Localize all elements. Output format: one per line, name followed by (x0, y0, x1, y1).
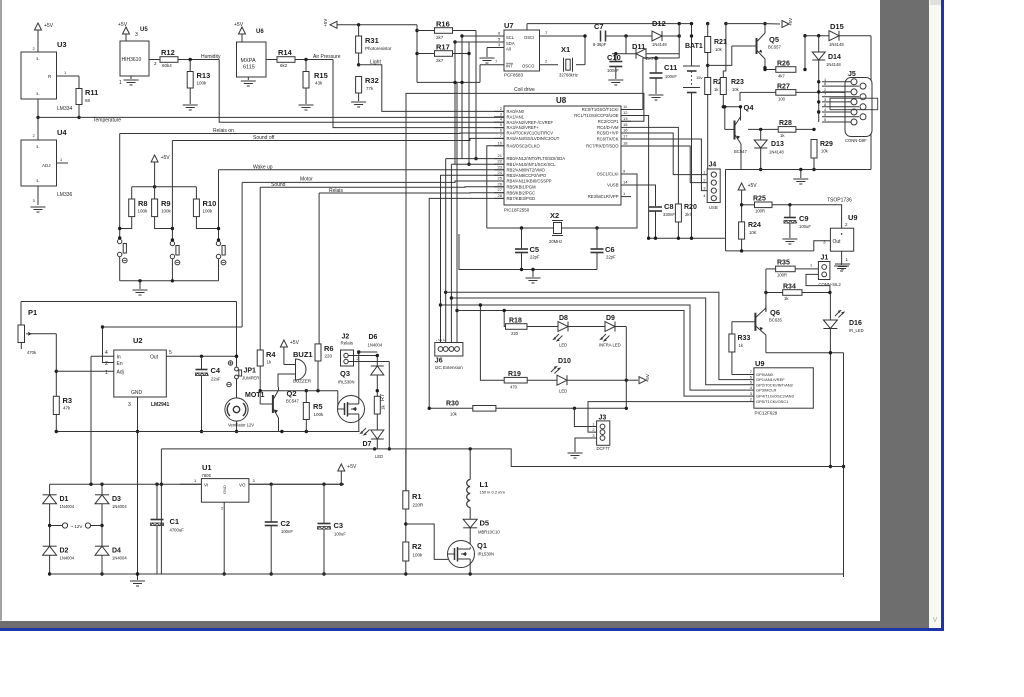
svg-text:D11: D11 (632, 42, 645, 51)
svg-text:5: 5 (169, 350, 172, 356)
svg-text:25: 25 (498, 176, 503, 181)
svg-text:GP5/T1CKI/OSC1: GP5/T1CKI/OSC1 (756, 399, 789, 404)
svg-text:10k: 10k (715, 47, 723, 52)
svg-text:2k7: 2k7 (436, 35, 444, 40)
svg-text:R34: R34 (783, 284, 796, 291)
svg-text:X2: X2 (550, 211, 559, 220)
svg-text:J1: J1 (821, 255, 829, 262)
svg-text:D15: D15 (830, 22, 844, 31)
svg-text:+5V: +5V (645, 374, 650, 382)
svg-text:R15: R15 (314, 71, 328, 80)
svg-text:BUZZER: BUZZER (293, 379, 312, 384)
svg-text:220R: 220R (413, 503, 425, 508)
svg-text:P1: P1 (28, 308, 37, 317)
svg-text:28: 28 (498, 193, 503, 198)
svg-text:2: 2 (824, 88, 826, 92)
svg-text:X1: X1 (561, 45, 570, 54)
svg-text:100k: 100k (138, 209, 149, 214)
svg-text:3: 3 (824, 98, 826, 102)
svg-text:Relais on: Relais on (213, 128, 234, 134)
svg-text:D9: D9 (606, 315, 615, 322)
svg-text:1: 1 (846, 257, 849, 262)
svg-text:D6: D6 (369, 334, 378, 341)
svg-text:I2C Extension: I2C Extension (435, 365, 464, 370)
svg-text:R9: R9 (161, 199, 171, 208)
svg-text:24: 24 (498, 170, 503, 175)
svg-text:32768kHz: 32768kHz (559, 73, 578, 78)
svg-text:RA2/AN2/VREF-/CVREF: RA2/AN2/VREF-/CVREF (507, 120, 554, 125)
svg-text:R33: R33 (738, 335, 751, 342)
svg-text:D4: D4 (112, 548, 121, 555)
svg-text:2: 2 (221, 506, 224, 511)
svg-text:U2: U2 (133, 336, 143, 345)
svg-text:RC2/CCP1: RC2/CCP1 (598, 119, 619, 124)
svg-text:4: 4 (824, 108, 826, 112)
svg-text:15v: 15v (696, 75, 702, 80)
svg-text:1: 1 (357, 351, 359, 355)
svg-text:D14: D14 (828, 54, 841, 61)
svg-text:2: 2 (33, 46, 36, 51)
svg-text:3: 3 (253, 478, 256, 483)
svg-text:27: 27 (498, 187, 503, 192)
svg-text:U5: U5 (140, 27, 148, 33)
svg-text:J6: J6 (435, 358, 443, 365)
svg-text:100R: 100R (777, 273, 787, 278)
svg-text:Temperature: Temperature (93, 118, 121, 124)
svg-text:R20: R20 (684, 204, 697, 211)
svg-text:RA6/OSC2/CLKO: RA6/OSC2/CLKO (507, 143, 541, 148)
svg-text:14: 14 (623, 180, 628, 185)
svg-text:C9: C9 (799, 214, 809, 223)
svg-text:R16: R16 (436, 20, 450, 29)
svg-text:6: 6 (824, 82, 826, 86)
svg-text:Adj: Adj (117, 370, 124, 376)
svg-text:Out: Out (833, 239, 842, 245)
svg-text:3: 3 (750, 391, 753, 396)
svg-text:1: 1 (105, 370, 108, 376)
svg-text:1k: 1k (267, 360, 273, 365)
svg-text:60k4: 60k4 (162, 63, 172, 68)
svg-text:R11: R11 (85, 88, 98, 97)
svg-text:BC635: BC635 (769, 318, 782, 323)
svg-text:BC557: BC557 (768, 45, 781, 50)
svg-text:+5V: +5V (748, 183, 758, 189)
svg-text:2: 2 (845, 222, 848, 227)
svg-text:R3: R3 (63, 396, 73, 405)
svg-text:+5V: +5V (290, 340, 300, 346)
svg-text:MBR10C10: MBR10C10 (478, 530, 500, 535)
svg-text:D5: D5 (480, 519, 490, 528)
svg-text:A0: A0 (506, 47, 512, 52)
svg-text:MXPA: MXPA (241, 58, 257, 64)
svg-text:R27: R27 (777, 84, 790, 91)
svg-text:Coil drive: Coil drive (514, 87, 535, 93)
svg-text:D3: D3 (112, 496, 121, 503)
svg-text:RB5/KBI1/PGM: RB5/KBI1/PGM (507, 184, 537, 189)
svg-text:VO: VO (239, 483, 246, 488)
svg-text:LM2941: LM2941 (151, 402, 170, 408)
svg-text:RB2/AN8/INT2/VMO: RB2/AN8/INT2/VMO (507, 167, 546, 172)
svg-text:Q5: Q5 (769, 35, 779, 44)
svg-text:220: 220 (511, 331, 519, 336)
svg-text:6: 6 (500, 128, 503, 133)
svg-text:C6: C6 (605, 245, 615, 254)
svg-text:RB3/AN9/CCP2/VPO: RB3/AN9/CCP2/VPO (507, 173, 548, 178)
svg-text:1: 1 (60, 157, 63, 162)
svg-text:11: 11 (623, 104, 628, 109)
svg-text:BUZ1: BUZ1 (293, 350, 313, 359)
svg-text:2: 2 (500, 106, 503, 111)
svg-text:26: 26 (498, 181, 503, 186)
svg-text:1: 1 (545, 30, 548, 35)
svg-text:~ 12V: ~ 12V (71, 524, 83, 529)
svg-text:U9: U9 (755, 359, 765, 368)
svg-text:OSCO: OSCO (522, 64, 535, 69)
svg-text:68: 68 (85, 98, 91, 103)
svg-text:1k: 1k (739, 343, 744, 348)
svg-text:77k: 77k (366, 86, 374, 91)
svg-text:TSOP1736: TSOP1736 (827, 198, 852, 204)
svg-text:R18: R18 (509, 318, 522, 325)
svg-text:1N4004: 1N4004 (368, 343, 383, 348)
svg-text:RE3/MCLR/VPP: RE3/MCLR/VPP (588, 194, 619, 199)
svg-text:IR_LED: IR_LED (849, 328, 864, 333)
svg-text:RB4/AN11/KBI0/CSSPP: RB4/AN11/KBI0/CSSPP (507, 179, 552, 184)
svg-text:In: In (117, 355, 121, 361)
svg-text:L1: L1 (480, 480, 489, 489)
svg-text:R8: R8 (138, 199, 148, 208)
svg-text:16: 16 (623, 128, 628, 133)
svg-text:3: 3 (33, 198, 36, 203)
svg-text:100R: 100R (755, 209, 765, 214)
svg-text:U3: U3 (57, 40, 67, 49)
svg-text:R1: R1 (412, 492, 422, 501)
svg-text:2: 2 (33, 133, 36, 138)
svg-text:1: 1 (119, 80, 122, 86)
svg-text:+5V: +5V (788, 18, 793, 26)
svg-text:10K: 10K (749, 230, 757, 235)
svg-text:GP3/MCLR: GP3/MCLR (756, 388, 777, 393)
svg-text:RC4/D-/VM: RC4/D-/VM (597, 125, 619, 130)
svg-text:12: 12 (623, 110, 628, 115)
svg-text:10k: 10k (732, 87, 740, 92)
svg-text:HIH3610: HIH3610 (122, 57, 142, 63)
svg-text:2: 2 (750, 396, 753, 401)
svg-text:RC6/TX/CK: RC6/TX/CK (597, 137, 619, 142)
svg-text:R5: R5 (313, 402, 323, 411)
svg-text:D8: D8 (559, 315, 568, 322)
svg-text:22pF: 22pF (530, 255, 540, 260)
svg-text:4k7: 4k7 (778, 74, 785, 79)
svg-text:Relais: Relais (341, 341, 354, 346)
svg-text:D1: D1 (60, 496, 69, 503)
svg-text:7: 7 (495, 59, 498, 64)
svg-text:C10: C10 (607, 53, 621, 62)
svg-text:J4: J4 (709, 162, 717, 169)
svg-text:R13: R13 (197, 71, 211, 80)
svg-text:150 in 0.2 mm: 150 in 0.2 mm (480, 490, 506, 495)
svg-text:3: 3 (592, 434, 594, 438)
svg-text:D7: D7 (363, 441, 372, 448)
svg-text:1k: 1k (780, 133, 785, 138)
svg-text:RA5/AN4/SS/LVDIN/C2OUT: RA5/AN4/SS/LVDIN/C2OUT (507, 136, 560, 141)
svg-text:3: 3 (135, 32, 138, 38)
svg-text:7: 7 (824, 93, 826, 97)
svg-text:C3: C3 (334, 521, 344, 530)
svg-text:Photoresistor: Photoresistor (365, 46, 392, 51)
svg-text:10: 10 (498, 140, 503, 145)
svg-text:20MHz: 20MHz (549, 239, 562, 244)
svg-text:R30: R30 (446, 401, 459, 408)
svg-text:RA1/AN1: RA1/AN1 (507, 114, 525, 119)
svg-text:Q3: Q3 (340, 369, 350, 378)
svg-text:R21: R21 (714, 39, 727, 46)
svg-text:22: 22 (498, 159, 503, 164)
svg-text:RC5/D+/VP: RC5/D+/VP (597, 131, 619, 136)
svg-text:4: 4 (750, 385, 753, 390)
svg-text:JP1: JP1 (244, 368, 257, 375)
svg-text:1N4004: 1N4004 (60, 556, 75, 561)
svg-text:C4: C4 (211, 366, 221, 375)
svg-text:OSC1/CLKI: OSC1/CLKI (597, 172, 619, 177)
svg-text:Ventilator 12V: Ventilator 12V (228, 423, 254, 428)
svg-text:Humidity: Humidity (201, 54, 221, 60)
svg-text:R28: R28 (779, 120, 792, 127)
svg-text:C2: C2 (281, 519, 291, 528)
svg-text:5: 5 (824, 118, 826, 122)
svg-text:IRL530N: IRL530N (478, 552, 495, 557)
svg-text:GND: GND (222, 485, 227, 494)
svg-text:+ 5 V G: + 5 V G (436, 338, 445, 342)
svg-text:100uF: 100uF (799, 224, 811, 229)
svg-text:470k: 470k (27, 350, 37, 355)
svg-text:1: 1 (592, 423, 594, 427)
svg-text:1: 1 (703, 171, 705, 175)
svg-text:GP2/T0CKI/INT/AN2: GP2/T0CKI/INT/AN2 (756, 382, 794, 387)
svg-text:PCF8583: PCF8583 (504, 73, 524, 78)
svg-text:+5V: +5V (323, 19, 328, 27)
svg-text:2: 2 (592, 428, 594, 432)
svg-text:D16: D16 (849, 320, 862, 327)
svg-text:DCF77: DCF77 (597, 446, 611, 451)
svg-text:1N4004: 1N4004 (112, 504, 127, 509)
svg-text:LED: LED (559, 343, 567, 348)
svg-text:1N4148: 1N4148 (826, 62, 841, 67)
svg-text:220: 220 (325, 354, 333, 359)
svg-text:SDA: SDA (506, 41, 515, 46)
svg-text:Motor: Motor (300, 177, 313, 183)
svg-text:5: 5 (498, 37, 501, 42)
svg-text:Sound: Sound (271, 182, 286, 188)
svg-text:15: 15 (623, 122, 628, 127)
svg-text:J2: J2 (342, 334, 350, 341)
svg-text:8-36pF: 8-36pF (593, 42, 607, 47)
svg-text:21: 21 (498, 153, 503, 158)
svg-text:3: 3 (703, 187, 705, 191)
svg-text:3: 3 (498, 42, 501, 47)
svg-text:R31: R31 (365, 36, 379, 45)
svg-text:18: 18 (623, 141, 628, 146)
svg-text:R4: R4 (266, 350, 276, 359)
svg-text:100k: 100k (161, 209, 172, 214)
svg-text:PIC12F629: PIC12F629 (755, 411, 778, 416)
svg-text:1N4004: 1N4004 (112, 556, 127, 561)
svg-text:R2: R2 (412, 542, 422, 551)
svg-text:U6: U6 (256, 29, 264, 35)
svg-text:100nF: 100nF (607, 68, 619, 73)
svg-text:En: En (117, 361, 123, 367)
svg-text:U1: U1 (202, 463, 212, 472)
svg-text:SCL: SCL (506, 35, 515, 40)
svg-text:BAT1: BAT1 (685, 43, 703, 50)
svg-text:LM334: LM334 (57, 106, 73, 112)
svg-text:INFRA LED: INFRA LED (599, 343, 621, 348)
svg-text:100k: 100k (413, 553, 424, 558)
svg-text:2: 2 (545, 59, 548, 64)
svg-text:4: 4 (105, 350, 108, 356)
svg-text:+5V: +5V (118, 22, 128, 28)
svg-text:USB: USB (709, 205, 718, 210)
svg-text:VI: VI (204, 483, 208, 488)
svg-text:22uF: 22uF (211, 377, 221, 382)
svg-text:Q4: Q4 (744, 103, 755, 112)
svg-text:IRL530N: IRL530N (338, 380, 355, 385)
svg-text:1N4148: 1N4148 (652, 42, 667, 47)
svg-text:R17: R17 (436, 43, 450, 52)
svg-text:C11: C11 (664, 63, 677, 72)
svg-text:OSCI: OSCI (524, 35, 534, 40)
svg-text:Relais: Relais (329, 188, 343, 194)
svg-text:R24: R24 (748, 222, 761, 229)
svg-text:2k7: 2k7 (685, 212, 692, 217)
svg-text:C1: C1 (170, 517, 180, 526)
svg-text:5: 5 (750, 379, 753, 384)
svg-text:LM336: LM336 (57, 192, 73, 198)
svg-text:47k: 47k (63, 406, 71, 411)
svg-text:RC1/T1OSI/CCP2/UOE: RC1/T1OSI/CCP2/UOE (574, 113, 618, 118)
svg-text:1: 1 (810, 264, 812, 268)
svg-text:RB7/KBI3/PGD: RB7/KBI3/PGD (507, 196, 536, 201)
svg-text:RA4/T0CKI/C1OUT/RCV: RA4/T0CKI/C1OUT/RCV (507, 131, 554, 136)
svg-text:R10: R10 (203, 199, 217, 208)
svg-text:GND: GND (131, 390, 143, 396)
svg-text:1k: 1k (714, 87, 719, 92)
svg-text:Air Pressure: Air Pressure (313, 54, 341, 60)
svg-text:3: 3 (500, 111, 503, 116)
svg-text:100k: 100k (314, 412, 325, 417)
svg-text:RA3/AN3/VREF+: RA3/AN3/VREF+ (507, 125, 540, 130)
svg-text:R19: R19 (508, 371, 521, 378)
svg-text:100uF: 100uF (334, 532, 346, 537)
svg-text:+5V: +5V (161, 155, 171, 161)
svg-text:2: 2 (154, 61, 157, 66)
svg-text:2: 2 (357, 357, 359, 361)
svg-text:2: 2 (703, 179, 705, 183)
svg-text:9: 9 (824, 113, 826, 117)
svg-text:J3: J3 (599, 415, 607, 422)
svg-text:D12: D12 (652, 19, 666, 28)
svg-text:R29: R29 (820, 141, 833, 148)
svg-text:7: 7 (500, 133, 503, 138)
svg-text:1: 1 (194, 478, 197, 483)
svg-text:R23: R23 (731, 79, 744, 86)
svg-text:Q1: Q1 (477, 541, 487, 550)
svg-text:RA0/AN0: RA0/AN0 (507, 109, 525, 114)
svg-text:470: 470 (510, 385, 518, 390)
svg-text:1N4148: 1N4148 (769, 150, 784, 155)
svg-text:LED: LED (559, 389, 567, 394)
svg-text:22pF: 22pF (606, 255, 616, 260)
svg-text:Sound off: Sound off (253, 135, 275, 141)
svg-text:Out: Out (150, 355, 159, 361)
svg-text:RC7/RX/DT/SDO: RC7/RX/DT/SDO (586, 144, 619, 149)
svg-text:13: 13 (623, 116, 628, 121)
svg-text:1: 1 (623, 191, 626, 196)
svg-text:R12: R12 (161, 48, 175, 57)
svg-text:+5V: +5V (44, 23, 54, 29)
svg-text:GP4/T1G/OSC2/AN3: GP4/T1G/OSC2/AN3 (756, 394, 795, 399)
svg-text:RB0/AN12/INT0/FLT0/SDI/SDA: RB0/AN12/INT0/FLT0/SDI/SDA (507, 156, 566, 161)
svg-text:U7: U7 (504, 21, 514, 30)
svg-text:1k: 1k (381, 404, 386, 410)
svg-text:R14: R14 (278, 48, 293, 57)
svg-text:D10: D10 (558, 358, 571, 365)
svg-text:R7: R7 (380, 394, 386, 401)
svg-text:C5: C5 (530, 245, 540, 254)
svg-text:330nF: 330nF (663, 212, 675, 217)
svg-text:43k: 43k (315, 81, 323, 86)
svg-text:1N4004: 1N4004 (60, 504, 75, 509)
svg-text:10k: 10k (450, 412, 458, 417)
svg-text:10k: 10k (821, 149, 829, 154)
svg-text:5: 5 (500, 122, 503, 127)
svg-text:RC0/T1OSO/T1CKI: RC0/T1OSO/T1CKI (582, 107, 619, 112)
svg-text:R35: R35 (777, 260, 790, 267)
svg-text:U9: U9 (848, 213, 858, 222)
svg-text:MOT1: MOT1 (245, 392, 265, 399)
svg-text:Wake up: Wake up (253, 164, 273, 170)
svg-text:R32: R32 (365, 76, 379, 85)
svg-text:ADJ: ADJ (42, 163, 51, 168)
svg-text:JUMPER: JUMPER (242, 376, 259, 381)
svg-text:CONN-D9F: CONN-D9F (845, 138, 867, 143)
svg-text:6k2: 6k2 (280, 63, 288, 68)
svg-text:4700uF: 4700uF (170, 528, 185, 533)
svg-text:6: 6 (498, 31, 501, 36)
svg-text:INT: INT (506, 64, 513, 69)
svg-text:4: 4 (703, 194, 705, 198)
svg-text:2: 2 (105, 361, 108, 367)
svg-text:C8: C8 (664, 202, 674, 211)
svg-text:100: 100 (778, 97, 786, 102)
svg-text:100nF: 100nF (665, 74, 677, 79)
svg-text:100k: 100k (197, 81, 208, 86)
svg-text:+5V: +5V (234, 22, 244, 28)
svg-text:1k: 1k (784, 296, 789, 301)
svg-text:3: 3 (128, 402, 131, 408)
svg-text:8: 8 (824, 103, 826, 107)
svg-text:D2: D2 (60, 548, 69, 555)
svg-text:100k: 100k (203, 209, 214, 214)
svg-text:PIC18F2550: PIC18F2550 (504, 208, 530, 213)
svg-text:LED: LED (375, 454, 383, 459)
svg-text:VUSB: VUSB (607, 183, 619, 188)
svg-text:R26: R26 (777, 61, 790, 68)
svg-text:+5V: +5V (347, 464, 357, 470)
svg-text:6115: 6115 (243, 65, 255, 71)
svg-text:J5: J5 (848, 71, 856, 78)
svg-text:Q6: Q6 (770, 308, 780, 317)
